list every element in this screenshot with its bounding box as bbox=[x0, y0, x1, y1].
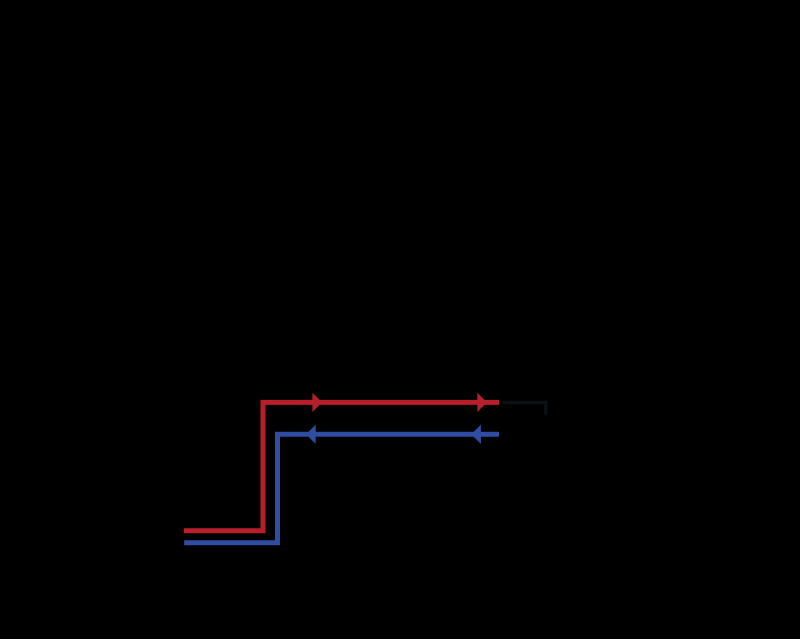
wire faint connector to heat exchanger bbox=[503, 403, 546, 415]
arrow return flow 1 (leftwards) bbox=[306, 425, 316, 444]
arrow return flow 2 (leftwards) bbox=[471, 425, 481, 444]
arrow supply flow 1 (rightwards) bbox=[312, 393, 322, 412]
arrow supply flow 2 (rightwards) bbox=[477, 393, 487, 412]
wire return pipe (blue, cold water return) bbox=[184, 434, 499, 542]
wire supply pipe (red, hot water flow) bbox=[184, 402, 499, 530]
